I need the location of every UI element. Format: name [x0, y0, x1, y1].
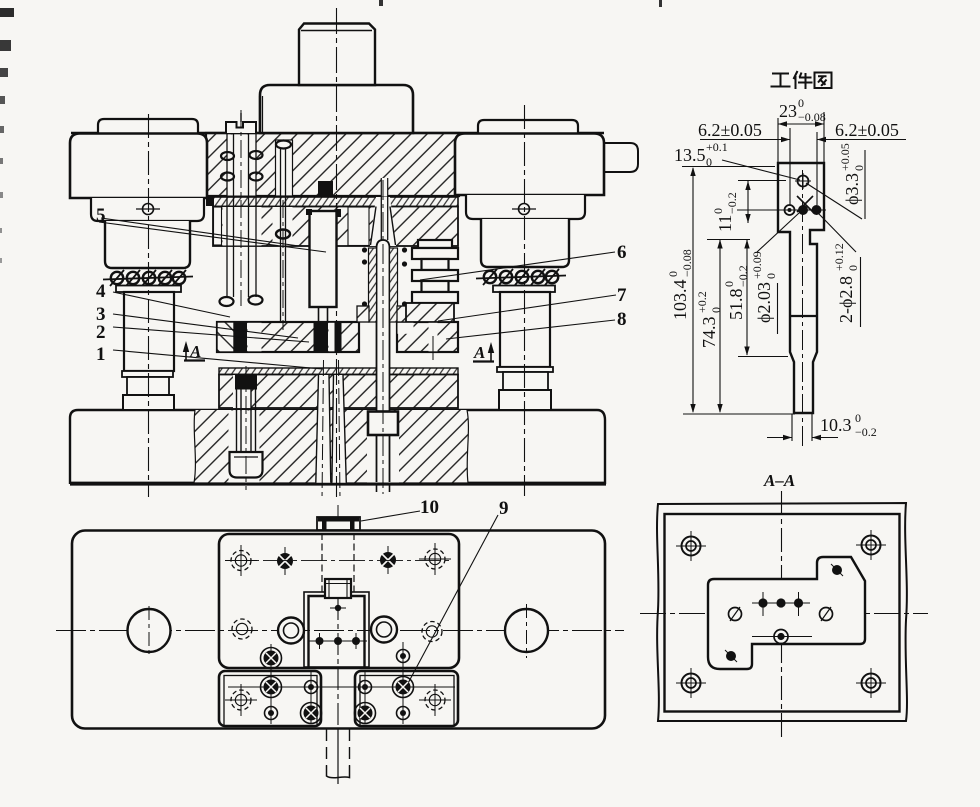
svg-text:+0.05: +0.05 — [838, 143, 852, 171]
svg-text:A: A — [473, 343, 485, 362]
scanner edge marks — [0, 8, 14, 17]
leader 5 — [99, 222, 326, 252]
plan centerline horizontal — [56, 630, 624, 632]
arrowheads — [690, 121, 826, 440]
lower center hole — [774, 630, 788, 644]
svg-text:0: 0 — [722, 281, 736, 287]
inner plate rect — [665, 514, 900, 712]
svg-text:6: 6 — [617, 242, 627, 263]
left post centerline — [148, 114, 150, 497]
svg-text:13.5: 13.5 — [674, 145, 706, 165]
upper shoe top edge — [71, 132, 604, 134]
svg-text:0: 0 — [764, 273, 778, 279]
dashed threaded holes — [231, 549, 445, 710]
svg-text:0: 0 — [706, 155, 712, 169]
svg-text:10.3: 10.3 — [820, 415, 852, 435]
dim line 23 — [778, 123, 824, 125]
hole row: right phi2.8 — [812, 205, 822, 215]
pin above screw head — [240, 113, 242, 122]
leader 2 — [113, 327, 309, 342]
spring sleeve left — [369, 248, 377, 322]
stripper bolt collars upper — [221, 151, 263, 181]
die shank — [299, 24, 375, 86]
lower plate slot for screw — [233, 375, 251, 408]
outer plate wavy outline — [657, 503, 907, 721]
three pin dots — [758, 598, 803, 607]
part number labels — [96, 205, 627, 519]
svg-text:9: 9 — [499, 498, 509, 519]
plan centerline vertical mid — [337, 598, 339, 729]
dim line 6.2 left/right — [700, 139, 790, 141]
spring washers row — [484, 271, 558, 283]
post ring — [122, 371, 173, 377]
svg-text:0: 0 — [846, 265, 860, 271]
pilot centerline — [282, 200, 284, 330]
main centerline — [336, 8, 338, 497]
right big hole — [505, 609, 548, 652]
spring seat right — [397, 306, 408, 322]
section arrow A right — [473, 342, 494, 362]
screw head — [230, 452, 263, 478]
svg-text:6.2±0.05: 6.2±0.05 — [698, 120, 762, 140]
stripper bolt centerline — [240, 110, 242, 306]
screw shank — [237, 389, 256, 452]
rotated dimension texts — [666, 143, 866, 348]
knockout rod hole in plates (flared) — [370, 197, 396, 246]
disc spring seat block — [406, 303, 454, 322]
hole centerline ticks — [225, 543, 455, 724]
step line on stem — [790, 315, 817, 317]
svg-text:0: 0 — [666, 271, 680, 277]
guide post body — [500, 292, 550, 367]
spring seat left — [357, 306, 369, 322]
lower cluster screws right block — [355, 650, 414, 724]
bushing lower step — [481, 219, 569, 267]
lower screw centerline — [245, 366, 247, 490]
post base — [499, 390, 551, 410]
washer — [493, 286, 555, 293]
screw thread engagement black — [235, 375, 257, 390]
stop pin 10 on top edge — [317, 517, 360, 530]
knockout rod through shoe — [377, 435, 390, 482]
thin post above shoe — [259, 96, 261, 133]
workpiece centerline — [802, 170, 804, 448]
punch (part 5) — [310, 211, 337, 307]
slot white: pilot hole in shoe — [276, 140, 293, 196]
left big hole — [128, 609, 171, 652]
strip channel below plate — [327, 729, 350, 784]
svg-text:7: 7 — [617, 285, 627, 306]
X mark over center hole — [797, 196, 813, 212]
svg-text:+0.2: +0.2 — [695, 291, 709, 313]
bushing head — [478, 120, 578, 133]
extension lines top — [777, 118, 779, 163]
die right centerline tick — [432, 336, 434, 360]
svg-text:−0.08: −0.08 — [680, 249, 694, 277]
leader 6 — [420, 252, 615, 280]
center pin dot — [335, 605, 341, 611]
hole row: center phi2.03 — [798, 205, 808, 215]
lower stripper plate dense strip — [219, 368, 458, 375]
punch holes with diagonal — [729, 608, 742, 621]
socket screws filled upper row — [277, 552, 396, 569]
die shank block — [260, 85, 413, 133]
svg-text:−0.2: −0.2 — [855, 425, 877, 439]
spring washers row — [111, 272, 185, 284]
svg-text:A: A — [189, 342, 201, 361]
guide post body — [124, 292, 174, 371]
dim 74.3 — [719, 240, 721, 412]
title 工件图 drawn strokes — [771, 71, 832, 89]
leader 10 — [361, 511, 420, 521]
knockout pin upper thin part — [380, 196, 382, 240]
punch plan small rect — [325, 579, 351, 598]
bushing head — [98, 119, 198, 133]
bushing body — [70, 134, 207, 199]
rod and slots below shoe bottom — [377, 483, 390, 492]
leader 1 — [113, 350, 322, 369]
fixing plate slot right of punch — [348, 207, 369, 246]
spring sleeve right — [390, 248, 398, 322]
svg-text:ϕ2.03: ϕ2.03 — [754, 282, 774, 323]
knockout rod centerline — [382, 180, 384, 494]
bushing flange step — [91, 198, 204, 221]
svg-text:1: 1 — [96, 344, 106, 365]
leader 3 — [113, 314, 298, 338]
fixing plate slot for stripper bolts — [223, 207, 262, 246]
die block right hatched — [397, 322, 458, 352]
punch tip — [319, 307, 328, 322]
svg-text:+0.12: +0.12 — [832, 243, 846, 271]
svg-text:103.4: 103.4 — [670, 280, 690, 321]
knockout rod slot in shoe white — [367, 411, 399, 483]
svg-text:0: 0 — [855, 411, 861, 425]
slot white: stripper bolts hole in shoe — [227, 135, 257, 196]
guide bushing left assembly — [70, 119, 207, 410]
lower cluster screws left block — [261, 648, 322, 724]
lower-right guide block — [355, 671, 458, 726]
punch fixing plate hatched — [213, 207, 458, 247]
dim 11 / 13.5 — [747, 181, 749, 223]
svg-text:5: 5 — [96, 205, 106, 226]
lower die shoe outline — [70, 410, 605, 483]
svg-text:6.2±0.05: 6.2±0.05 — [835, 120, 899, 140]
tapered slot centerlines — [322, 360, 324, 500]
post neck — [503, 372, 548, 390]
leader 8 — [446, 320, 615, 339]
center mark circle — [519, 204, 530, 215]
svg-text:10: 10 — [420, 497, 439, 518]
svg-text:−0.08: −0.08 — [798, 110, 826, 124]
screw head above shoe — [226, 122, 256, 133]
pilot pin ring in shoe — [276, 141, 291, 149]
centerline horizontal — [640, 613, 928, 615]
corner screw targets — [676, 530, 886, 698]
top hole phi3.3 — [798, 176, 809, 187]
punch tips in die black — [314, 322, 329, 352]
knockout rod collar — [368, 412, 398, 436]
svg-text:A–A: A–A — [763, 471, 795, 490]
post ring — [497, 367, 553, 372]
svg-text:11: 11 — [715, 215, 735, 232]
svg-text:2: 2 — [96, 322, 106, 343]
fixing plate slot left — [214, 207, 222, 245]
upper backing plate (dense hatch) — [213, 197, 458, 207]
pilot pin shaft — [280, 148, 282, 322]
knockout rod dome top — [377, 240, 390, 248]
leader 9 — [406, 515, 498, 687]
die slot white areas — [248, 323, 262, 352]
black filled pocket left of punch top — [318, 181, 333, 197]
bushing flange step — [466, 195, 585, 219]
dim 103.4 — [692, 168, 694, 412]
center mark circle — [143, 204, 154, 215]
spring wire dots left — [362, 247, 367, 320]
lower-left guide block — [219, 671, 321, 726]
row centerline — [780, 209, 826, 211]
svg-text:−0.2: −0.2 — [736, 265, 750, 287]
dowel dot upper right — [832, 565, 842, 575]
svg-text:51.8: 51.8 — [726, 289, 746, 321]
fixing plate slot for pilot — [273, 207, 293, 246]
post neck — [127, 377, 169, 395]
slot white: knockout pin hole in shoe — [381, 178, 388, 197]
bushing body — [455, 134, 604, 196]
right post centerline — [524, 105, 526, 496]
bottom plate outline — [72, 531, 605, 729]
blanked slug black left — [234, 322, 247, 352]
leader 4 — [113, 292, 230, 317]
punch plate plan inner — [309, 596, 365, 667]
svg-text:ϕ3.3: ϕ3.3 — [842, 173, 862, 205]
leader lines — [722, 160, 800, 180]
post base — [123, 395, 174, 410]
tapered discharge slots in lower plate and shoe — [316, 375, 347, 483]
ticks — [738, 180, 786, 182]
washer — [116, 286, 181, 293]
pilot pin collar — [276, 230, 290, 239]
svg-text:−0.2: −0.2 — [725, 192, 739, 214]
svg-text:0: 0 — [852, 165, 866, 171]
dowel dot lower left — [726, 651, 736, 661]
svg-text:+0.09: +0.09 — [750, 251, 764, 279]
upper row centerline — [225, 560, 451, 562]
svg-text:8: 8 — [617, 309, 627, 330]
die block left hatched — [217, 322, 359, 352]
knockout rod body — [377, 248, 390, 482]
bushing lower step — [105, 221, 190, 268]
die block left reverse-hatch corner — [217, 322, 234, 352]
centerline vertical — [781, 491, 783, 739]
die holder block plan — [219, 534, 459, 668]
lower die shoe hatched middle — [194, 410, 468, 483]
stripper bolt left — [227, 134, 256, 297]
screw slot in shoe white — [229, 411, 260, 483]
section arrow A left — [183, 341, 205, 361]
dim 51.8 — [746, 240, 748, 355]
svg-text:0: 0 — [798, 96, 804, 110]
guide bushing right assembly — [455, 120, 604, 410]
10.3 extensions — [791, 414, 793, 441]
svg-text:0: 0 — [709, 307, 723, 313]
dimension texts — [674, 96, 899, 439]
disc spring stack — [412, 240, 458, 303]
punch plate plan outer — [304, 592, 369, 667]
lower plate hatched — [219, 375, 458, 409]
svg-text:23: 23 — [779, 101, 797, 121]
three pin dots row — [316, 637, 361, 645]
leader 7 — [438, 295, 616, 321]
guide bush holes mid row — [278, 617, 397, 644]
workpiece profile — [778, 163, 824, 413]
hole row: left phi2.8 — [785, 205, 795, 215]
spring wire dots right — [402, 247, 407, 320]
svg-text:74.3: 74.3 — [699, 317, 719, 349]
extension y166 — [682, 166, 775, 168]
die opening Z-profile — [708, 557, 865, 669]
svg-text:+0.1: +0.1 — [706, 140, 728, 154]
upper die shoe hatched body — [206, 133, 459, 196]
upper shoe right end tab — [602, 143, 638, 172]
strip guide dashed lines — [322, 533, 354, 592]
scan blobs at punch top corners — [306, 209, 312, 215]
lower die shoe bottom thick edge — [70, 482, 606, 485]
svg-text:4: 4 — [96, 281, 106, 302]
svg-text:0: 0 — [711, 208, 725, 214]
stripper bolt heads lower — [220, 296, 263, 307]
svg-text:2-ϕ2.8: 2-ϕ2.8 — [836, 276, 856, 323]
